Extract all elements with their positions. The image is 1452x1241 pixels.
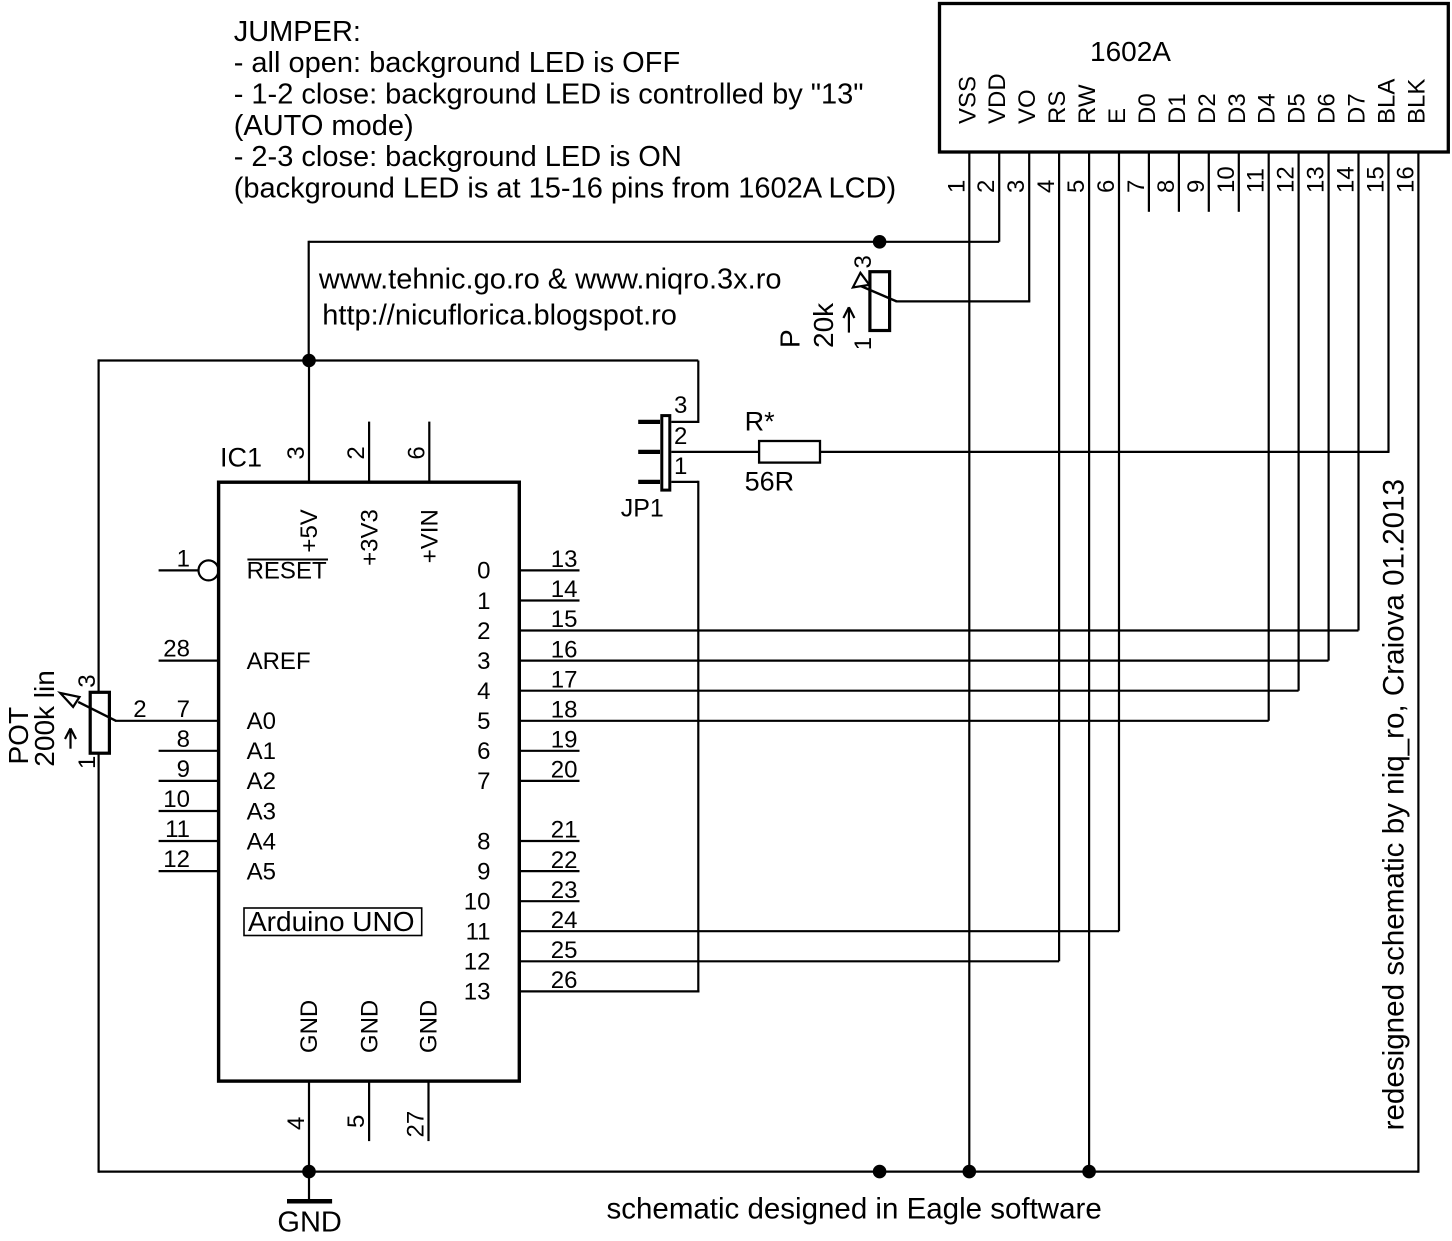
wire JP1 pin 1 down to Arduino D13 net	[671, 481, 698, 483]
svg-text:5: 5	[343, 1115, 370, 1128]
svg-text:6: 6	[403, 446, 430, 459]
wire LCD pin 5 (RW) vertical	[1088, 152, 1090, 1173]
svg-text:14: 14	[551, 576, 578, 603]
svg-text:redesigned schematic by niq_ro: redesigned schematic by niq_ro, Craiova …	[1378, 479, 1411, 1130]
wire IC1 right stub row y=901.2	[519, 900, 579, 902]
node GND junction at LCD VSS	[963, 1165, 977, 1179]
svg-text:4: 4	[1033, 180, 1060, 193]
svg-text:2: 2	[973, 180, 1000, 193]
IC1 Arduino UNO body	[219, 482, 520, 1081]
wire GND rail	[99, 1170, 1419, 1172]
svg-text:+3V3: +3V3	[356, 509, 383, 566]
svg-text:GND: GND	[296, 1000, 323, 1053]
P adjust arrow	[848, 309, 850, 333]
svg-text:GND: GND	[277, 1206, 341, 1238]
svg-text:1: 1	[74, 756, 101, 769]
wire RESET stub	[159, 569, 199, 571]
svg-text:20k: 20k	[808, 302, 839, 348]
svg-text:11: 11	[1243, 168, 1270, 193]
wire LCD pin 3 (VO) vertical	[1028, 152, 1030, 301]
svg-text:10: 10	[163, 786, 190, 813]
wire left border upper (rail to POT pin 3)	[97, 359, 99, 692]
P wiper arrow	[861, 286, 897, 301]
svg-text:19: 19	[551, 727, 578, 754]
svg-text:27: 27	[403, 1111, 430, 1138]
svg-text:3: 3	[74, 674, 101, 687]
resistor R* body	[759, 441, 820, 463]
svg-text:A5: A5	[247, 858, 276, 885]
svg-text:1602A: 1602A	[1090, 36, 1171, 67]
svg-text:3: 3	[850, 255, 877, 268]
jumper JP1 body	[662, 416, 670, 491]
svg-text:RESET: RESET	[247, 558, 327, 585]
svg-text:200k lin: 200k lin	[29, 670, 60, 767]
wire LCD pin 15 (BLA) vertical	[1387, 152, 1389, 452]
svg-text:(AUTO mode): (AUTO mode)	[234, 110, 414, 142]
svg-text:5: 5	[1063, 180, 1090, 193]
wire D5 to LCD D4	[519, 720, 1268, 722]
wire IC1 right stub row y=871.1	[519, 870, 579, 872]
svg-text:3: 3	[1003, 180, 1030, 193]
svg-text:9: 9	[1183, 180, 1210, 193]
wire D13 to JP1 pin 1 net	[519, 990, 699, 992]
svg-text:15: 15	[551, 606, 578, 633]
svg-text:6: 6	[1093, 180, 1120, 193]
svg-text:D3: D3	[1224, 93, 1251, 124]
wire A4 stub	[159, 840, 219, 842]
svg-text:20: 20	[551, 757, 578, 784]
wire IC1 right stub row y=750.8	[519, 750, 579, 752]
ground	[308, 1172, 310, 1199]
pin RESET (active low)	[199, 560, 219, 580]
svg-text:1: 1	[850, 337, 877, 350]
svg-text:56R: 56R	[745, 467, 795, 497]
wire P wiper to LCD VO	[896, 300, 1031, 302]
wire LCD pin 13 (D6) vertical	[1327, 152, 1329, 661]
label Arduino UNO framed	[244, 908, 422, 936]
wire LCD pin 6 (E) vertical	[1118, 152, 1120, 931]
node +5V junction at P top	[873, 235, 887, 249]
wire LCD pin 9 (D2) vertical	[1208, 152, 1210, 212]
svg-text:8: 8	[477, 828, 490, 855]
node GND junction at LCD RW	[1082, 1165, 1096, 1179]
svg-text:VDD: VDD	[984, 73, 1011, 124]
wire IC1 pin 5 GND stub	[368, 1081, 370, 1141]
svg-text:D6: D6	[1314, 93, 1341, 124]
wire IC1 right stub row y=780.9	[519, 780, 579, 782]
svg-text:A0: A0	[247, 708, 276, 735]
svg-text:BLK: BLK	[1403, 79, 1430, 124]
svg-text:E: E	[1104, 108, 1131, 124]
svg-text:IC1: IC1	[220, 443, 262, 473]
svg-text:A4: A4	[247, 828, 276, 855]
jumper JP1 pin stubs	[638, 420, 660, 424]
svg-text:D5: D5	[1284, 93, 1311, 124]
wire LCD pin 11 (D4) vertical	[1268, 152, 1270, 721]
svg-text:- 2-3 close: background LED is: - 2-3 close: background LED is ON	[234, 141, 682, 173]
POT adjust arrow	[69, 730, 71, 749]
svg-text:13: 13	[464, 979, 491, 1006]
svg-text:2: 2	[477, 618, 490, 645]
svg-text:A2: A2	[247, 768, 276, 795]
svg-text:1: 1	[177, 545, 190, 572]
svg-text:- all open: background LED is: - all open: background LED is OFF	[234, 47, 680, 79]
svg-text:2: 2	[343, 446, 370, 459]
wire LCD pin 1 (VSS) vertical	[968, 152, 970, 1173]
svg-text:3: 3	[283, 446, 310, 459]
svg-text:28: 28	[163, 636, 190, 663]
svg-text:3: 3	[674, 392, 687, 419]
svg-text:+VIN: +VIN	[417, 509, 444, 563]
svg-text:14: 14	[1333, 166, 1360, 193]
svg-text:3: 3	[477, 648, 490, 675]
svg-text:13: 13	[1303, 166, 1330, 193]
svg-text:16: 16	[551, 636, 578, 663]
node GND junction at IC1 pin 4	[302, 1165, 316, 1179]
svg-text:13: 13	[551, 546, 578, 573]
svg-text:24: 24	[551, 907, 578, 934]
svg-text:7: 7	[477, 768, 490, 795]
svg-text:7: 7	[1123, 180, 1150, 193]
wire A1 stub	[159, 750, 219, 752]
svg-text:JUMPER:: JUMPER:	[234, 16, 361, 48]
LCD module 1602A body	[940, 4, 1449, 153]
svg-text:9: 9	[177, 756, 190, 783]
svg-text:VO: VO	[1014, 89, 1041, 124]
node GND junction at P bottom	[873, 1165, 887, 1179]
svg-text:23: 23	[551, 877, 578, 904]
svg-text:7: 7	[177, 696, 190, 723]
wire LCD pin 7 (D0) vertical	[1148, 152, 1150, 212]
wire JP1 pin 3 to +5V rail	[671, 421, 698, 423]
wire left border lower (POT pin 1 to GND rail)	[97, 752, 99, 1173]
potentiometer POT 200k body	[90, 692, 109, 753]
wire AREF stub	[159, 659, 219, 661]
wire R* to LCD BLA	[820, 451, 1390, 453]
svg-text:18: 18	[551, 697, 578, 724]
wire +5V rail	[99, 359, 699, 361]
wire D12 to LCD RS	[519, 960, 1059, 962]
svg-text:16: 16	[1392, 166, 1419, 193]
svg-text:8: 8	[1153, 180, 1180, 193]
wire LCD pin 2 (VDD) vertical	[998, 152, 1000, 242]
svg-text:http://nicuflorica.blogspot.ro: http://nicuflorica.blogspot.ro	[322, 300, 677, 332]
svg-text:11: 11	[466, 919, 491, 946]
POT wiper arrow	[78, 702, 116, 721]
svg-text:- 1-2 close: background LED is: - 1-2 close: background LED is controlle…	[234, 79, 864, 111]
svg-text:2: 2	[133, 696, 146, 723]
wire LCD pin 16 (BLK) vertical	[1417, 152, 1419, 1173]
svg-text:22: 22	[551, 847, 578, 874]
svg-text:GND: GND	[416, 1000, 443, 1053]
svg-text:1: 1	[943, 180, 970, 193]
wire D4 to LCD D5	[519, 690, 1298, 692]
svg-text:D7: D7	[1344, 93, 1371, 124]
node +5V junction at IC1 pin 3	[302, 354, 316, 368]
svg-text:6: 6	[477, 738, 490, 765]
wire LCD pin 4 (RS) vertical	[1058, 152, 1060, 961]
svg-text:1: 1	[477, 588, 490, 615]
svg-text:R*: R*	[745, 407, 775, 437]
svg-text:26: 26	[551, 967, 578, 994]
wire IC1 pin 6 (+VIN) stub	[428, 422, 430, 483]
wire LCD pin 10 (D3) vertical	[1238, 152, 1240, 212]
svg-text:2: 2	[674, 423, 687, 450]
svg-text:17: 17	[551, 666, 578, 693]
svg-text:21: 21	[551, 817, 578, 844]
wire POT wiper to A0	[115, 720, 219, 722]
wire IC1 pin 3 (+5V) to rail	[308, 361, 310, 483]
wire IC1 pin 27 GND stub	[427, 1081, 429, 1141]
svg-text:12: 12	[464, 949, 491, 976]
svg-text:Arduino UNO: Arduino UNO	[248, 906, 415, 937]
wire A2 stub	[159, 780, 219, 782]
svg-text:www.tehnic.go.ro & www.niqro.3: www.tehnic.go.ro & www.niqro.3x.ro	[318, 264, 782, 296]
svg-text:15: 15	[1363, 166, 1390, 193]
svg-text:9: 9	[477, 858, 490, 885]
wire LCD pin 8 (D1) vertical	[1178, 152, 1180, 212]
svg-text:A1: A1	[247, 738, 276, 765]
svg-text:25: 25	[551, 937, 578, 964]
svg-text:12: 12	[1273, 166, 1300, 193]
svg-text:8: 8	[177, 726, 190, 753]
svg-text:5: 5	[477, 708, 490, 735]
svg-text:11: 11	[165, 816, 190, 843]
svg-text:10: 10	[464, 889, 491, 916]
wire A5 stub	[159, 870, 219, 872]
wire +5V top horizontal (VDD feed)	[309, 241, 1000, 243]
wire D11 to LCD E	[519, 930, 1119, 932]
svg-text:RS: RS	[1044, 91, 1071, 124]
svg-text:JP1: JP1	[621, 494, 664, 522]
wire IC1 pin 4 GND to rail	[308, 1081, 310, 1172]
wire D2 to LCD D7	[519, 629, 1358, 631]
svg-text:1: 1	[674, 453, 687, 480]
svg-text:4: 4	[283, 1117, 310, 1130]
wire +5V vertical riser x=308.7	[308, 241, 310, 361]
svg-text:A3: A3	[247, 798, 276, 825]
wire IC1 right stub row y=841.0	[519, 840, 579, 842]
svg-text:0: 0	[477, 558, 490, 585]
svg-text:P: P	[774, 329, 805, 348]
svg-text:D0: D0	[1134, 93, 1161, 124]
svg-text:VSS: VSS	[954, 76, 981, 124]
wire LCD pin 14 (D7) vertical	[1357, 152, 1359, 631]
svg-text:4: 4	[477, 678, 490, 705]
svg-text:D4: D4	[1254, 93, 1281, 124]
svg-text:12: 12	[163, 846, 190, 873]
svg-text:AREF: AREF	[247, 648, 311, 675]
wire IC1 pin 2 (+3V3) stub	[368, 422, 370, 483]
svg-text:D2: D2	[1194, 93, 1221, 124]
wire A3 stub	[159, 810, 219, 812]
wire IC1 right stub row y=570.4	[519, 569, 579, 571]
wire JP1 pin 2 to R*	[671, 451, 759, 453]
svg-text:GND: GND	[356, 1000, 383, 1053]
potentiometer P 20k body	[870, 272, 890, 331]
svg-text:schematic designed in Eagle so: schematic designed in Eagle software	[607, 1193, 1102, 1226]
svg-text:BLA: BLA	[1374, 79, 1401, 124]
svg-text:RW: RW	[1074, 84, 1101, 124]
svg-text:(background LED is at 15-16 pi: (background LED is at 15-16 pins from 16…	[234, 172, 897, 204]
svg-text:D1: D1	[1164, 93, 1191, 124]
svg-text:+5V: +5V	[296, 509, 323, 552]
wire LCD pin 12 (D5) vertical	[1297, 152, 1299, 691]
svg-text:10: 10	[1213, 166, 1240, 193]
wire D3 to LCD D6	[519, 659, 1328, 661]
wire IC1 right stub row y=600.5	[519, 599, 579, 601]
